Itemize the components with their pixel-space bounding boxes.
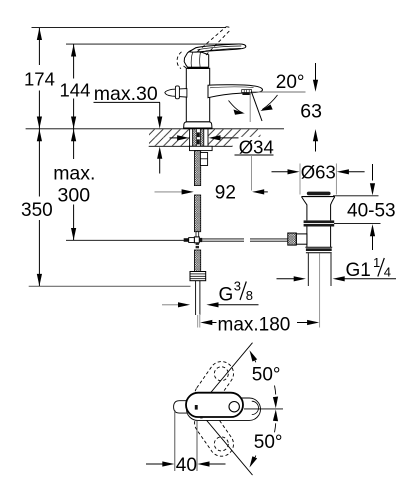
rod joint block (189, 238, 195, 243)
svg-text:50°: 50° (252, 364, 281, 385)
lever head (cartridge housing) (184, 51, 209, 67)
tailpipe centerline (gray) (319, 254, 321, 328)
dim 40-53 upper arrow (372, 164, 374, 181)
arrow max30 up (157, 147, 162, 159)
svg-text:max.180: max.180 (218, 314, 291, 335)
svg-text:40-53: 40-53 (347, 201, 396, 222)
washer under counter (190, 146, 213, 150)
faucet body (186, 68, 209, 122)
knob fin (175, 86, 179, 99)
svg-text:300: 300 (58, 184, 91, 206)
dim 40-53 lower arrow (370, 224, 375, 236)
drain body below o-ring (306, 227, 308, 248)
max180 left arrow (200, 320, 212, 325)
braided hose segment 3 (194, 250, 200, 272)
20 deg vertical ref (gray) (249, 92, 251, 122)
vertical rod below junction (196, 243, 199, 249)
raised lever (phantom, dashed) (177, 27, 231, 70)
knurled knob (288, 233, 297, 245)
dimension 174 line upper (39, 28, 73, 286)
max.30 dim line lower tail (159, 158, 161, 174)
arrow 144 up (71, 44, 76, 56)
arrow 174 down (37, 117, 42, 129)
svg-text:144: 144 (60, 79, 91, 100)
arrow max300 down (71, 228, 76, 240)
swing arc right with arrow (262, 95, 277, 110)
20 deg slanted line (251, 91, 262, 121)
O34 drop leader (gray) (251, 155, 253, 191)
O63 left arrow (272, 171, 289, 173)
counter top line (26, 128, 284, 130)
counter hatch left block (149, 129, 190, 146)
svg-text:40: 40 (176, 455, 197, 476)
max.30 underline (94, 101, 161, 103)
dimension max300 line (73, 129, 75, 159)
white box for O34 label (233, 137, 284, 161)
drain flange top line (301, 196, 335, 198)
svg-text:4: 4 (384, 265, 391, 280)
counter bottom line (149, 145, 261, 147)
drain plug cap (dark) (307, 192, 331, 196)
lever small dot (200, 416, 202, 418)
G3/8 right arrow (206, 302, 218, 307)
head/body joint thick line (187, 67, 208, 69)
counter hatch right block (208, 129, 261, 146)
phantom head front arc (177, 52, 181, 69)
centerline right (angular ref) (244, 408, 283, 410)
mounting shank in hole (threaded) (193, 129, 204, 147)
dimension 144 line (73, 44, 75, 78)
max180 left ext line (199, 314, 201, 328)
svg-text:G: G (219, 284, 234, 305)
arrow 174 up (37, 28, 42, 40)
junction right collar (199, 238, 202, 242)
rod cross junction (194, 237, 199, 243)
bottom hose end line (350 datum, gray) (29, 285, 191, 287)
O63 right arrow (337, 169, 349, 174)
slot pin upper (197, 132, 200, 137)
dim 92 right arrow (252, 189, 264, 194)
tail centerline (gray) (197, 315, 199, 328)
slot pin lower (197, 139, 200, 144)
faucet base plinth (184, 122, 212, 128)
dim 40 right arrow (197, 461, 209, 466)
dim 63 upper arrow (315, 63, 317, 81)
svg-text:max.: max. (53, 162, 95, 184)
40-53 ref line upper (333, 195, 379, 197)
svg-text:20°: 20° (276, 72, 305, 93)
arrow 350 up (37, 129, 42, 141)
arrow max300 up (71, 129, 76, 141)
O34 left arrow (170, 137, 179, 139)
lower 50 arc segment near diagonal + arrow (251, 456, 256, 466)
dimension 350 line lower (38, 129, 40, 197)
G3/8 left arrow (162, 304, 179, 306)
upper 50 arc segment near centerline + arrow (275, 386, 276, 395)
ghost lever upper (dashed) (190, 357, 238, 412)
lever logo circle (229, 402, 239, 412)
O34 underline (235, 154, 274, 156)
spout (208, 85, 263, 98)
pop-up rod right (double line) (202, 238, 244, 240)
svg-text:Ø63: Ø63 (301, 161, 336, 182)
rod port cylinder (296, 234, 307, 244)
pop-up knob (left of body) (165, 89, 187, 98)
max.30 dim line upper (159, 102, 161, 117)
arrow 350 down (37, 274, 42, 286)
hole wall right (207, 129, 209, 147)
upper 50 arc segment near diagonal + arrow (251, 353, 256, 363)
G1 1/4 underline (344, 278, 396, 280)
O34 right arrow (208, 135, 220, 140)
svg-text:3: 3 (234, 278, 241, 293)
body inner right cap line (252, 401, 259, 414)
reference line lever rest height (66, 43, 241, 45)
base bottom edge (184, 127, 212, 129)
dim 92 left arrow (155, 191, 183, 193)
swing arc left with arrow (229, 101, 243, 113)
arrow max30 down (157, 117, 162, 129)
svg-text:8: 8 (246, 288, 253, 303)
lever handle (189, 44, 246, 52)
ghost lever lower (dashed) (190, 406, 238, 461)
top view: 50deg lower diagonal (205, 418, 253, 475)
spout outlet ref line (252, 91, 306, 93)
o-ring band (dark) (304, 220, 335, 223)
tailpipe (307, 253, 309, 286)
O63 extension left (gray) (299, 164, 301, 195)
max180 right arrow (297, 322, 308, 324)
drain flange trumpet (302, 197, 335, 221)
braided hose segment 2 (194, 195, 200, 232)
svg-text:92: 92 (215, 183, 236, 204)
svg-text:50°: 50° (254, 432, 283, 453)
G3/8 nut (190, 272, 206, 281)
G3/8 tail tube (195, 281, 197, 315)
svg-text:350: 350 (21, 200, 53, 221)
svg-text:G1: G1 (346, 260, 371, 281)
svg-text:63: 63 (300, 100, 322, 122)
arrow 144 down (71, 117, 76, 129)
lever tick mark (195, 405, 198, 410)
dim 40 left arrow (146, 463, 164, 465)
svg-text:max.30: max.30 (94, 83, 158, 105)
shank center slot (196, 129, 200, 147)
hole wall left (189, 129, 191, 147)
G1 1/4 right arrow (333, 276, 345, 281)
reference line top (raised lever height) (32, 27, 227, 29)
drain bottom flange (305, 246, 332, 248)
braided hose segment 1 (194, 151, 200, 186)
O63 extension right (gray) (335, 164, 337, 195)
40-53 ref line lower (334, 223, 381, 225)
svg-text:Ø34: Ø34 (239, 137, 274, 158)
G1 1/4 left arrow (277, 278, 295, 280)
top view body outline (187, 398, 261, 420)
rod end cylinder (184, 238, 189, 242)
side nipple (200, 153, 207, 166)
hose neck (196, 232, 199, 237)
lever inner ridge (198, 46, 242, 51)
aerator hatch (242, 90, 252, 93)
top view: 50deg upper diagonal (205, 343, 253, 400)
pop-up rod left (thin) (66, 239, 184, 241)
top view spout nose (174, 401, 188, 413)
G3/8 underline (218, 304, 259, 306)
aerator dark tip (242, 93, 250, 96)
svg-text:174: 174 (24, 68, 55, 89)
dim 40 ext line right (196, 421, 198, 471)
dim 63 lower arrow (313, 129, 318, 141)
top view lever (bold) (186, 393, 243, 417)
dim 40 ext line left (174, 410, 176, 471)
lower 50 arc segment near centerline + arrow (275, 423, 276, 432)
svg-text:1: 1 (373, 255, 380, 270)
